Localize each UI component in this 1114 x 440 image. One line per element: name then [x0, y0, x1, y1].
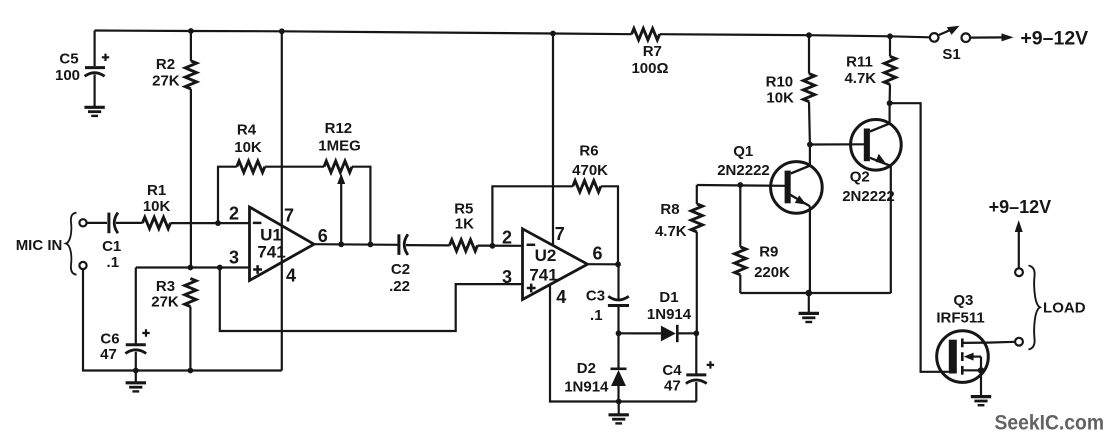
wire U1 supply riser pin7 to pin4 — [281, 31, 283, 370]
diode D2 — [564, 333, 626, 401]
wire Q2 emitter drop — [890, 165, 892, 293]
wire R2 bottom down to pin3 node — [190, 89, 192, 268]
svg-text:6: 6 — [592, 244, 602, 264]
svg-text:7: 7 — [284, 206, 294, 226]
wire C1 to R1 — [116, 222, 143, 224]
svg-text:4: 4 — [286, 266, 296, 286]
svg-text:R8: R8 — [660, 201, 679, 218]
svg-text:4.7K: 4.7K — [844, 70, 876, 87]
svg-text:R4: R4 — [237, 122, 257, 139]
svg-text:D2: D2 — [577, 360, 596, 377]
wire Q2 base feed — [810, 143, 864, 145]
resistor R7 — [631, 29, 668, 78]
node MIC IN — [16, 213, 87, 275]
svg-text:1K: 1K — [455, 216, 474, 233]
svg-text:7: 7 — [555, 224, 565, 244]
svg-text:100Ω: 100Ω — [631, 60, 668, 77]
svg-text:2N2222: 2N2222 — [842, 188, 895, 205]
resistor R6 — [572, 143, 608, 193]
wire U2 pin3 feed — [220, 268, 523, 332]
ground at C6 — [126, 371, 146, 392]
node rail junction R2 — [188, 28, 194, 34]
wire R6 to output — [601, 186, 618, 264]
svg-text:10K: 10K — [143, 198, 171, 215]
wire U1 output — [314, 243, 398, 246]
resistor R1 — [143, 182, 171, 229]
transistor Q1 — [717, 143, 822, 213]
svg-text:R3: R3 — [156, 278, 175, 295]
ground at Q3 — [971, 397, 991, 406]
potentiometer R12 — [318, 120, 361, 244]
svg-text:Q1: Q1 — [733, 143, 753, 160]
svg-text:R7: R7 — [643, 43, 662, 60]
svg-text:C1: C1 — [102, 238, 121, 255]
node R3 bottom junction — [188, 368, 194, 374]
transistor Q3 MOSFET — [936, 292, 988, 396]
svg-text:C6: C6 — [100, 331, 119, 348]
svg-text:3: 3 — [502, 267, 512, 287]
svg-text:1N914: 1N914 — [564, 379, 609, 396]
node wiper junction — [338, 241, 344, 247]
svg-text:R1: R1 — [147, 182, 166, 199]
switch S1 — [930, 26, 970, 63]
svg-text:47: 47 — [664, 377, 681, 394]
capacitor C4 — [662, 333, 714, 401]
node load top terminal — [1015, 268, 1023, 276]
svg-text:220K: 220K — [754, 264, 790, 281]
svg-text:100: 100 — [55, 67, 80, 84]
capacitor C5 — [55, 31, 109, 107]
node Q2 collector junction — [887, 100, 893, 106]
wire U1 pin3 feed — [136, 266, 250, 268]
svg-text:4.7K: 4.7K — [655, 223, 687, 240]
op-amp U2 — [523, 229, 588, 300]
capacitor C6 — [100, 268, 150, 371]
wire C2 to R5 — [406, 244, 450, 246]
svg-text:R12: R12 — [325, 120, 353, 137]
wire Q2 collector riser — [888, 103, 890, 123]
svg-text:4: 4 — [556, 287, 566, 307]
wire U2 pin4 down and bottom — [550, 285, 696, 402]
wire Q1 collector riser — [809, 145, 811, 166]
svg-text:C3: C3 — [586, 287, 605, 304]
node Q1 collector junction — [807, 142, 813, 148]
svg-text:2: 2 — [229, 204, 239, 224]
capacitor C1 — [102, 213, 121, 272]
svg-text:.1: .1 — [590, 307, 603, 324]
svg-text:1N914: 1N914 — [647, 306, 692, 323]
resistor R5 — [450, 201, 478, 252]
svg-text:+9–12V: +9–12V — [989, 197, 1052, 217]
node rail junction U2 supply — [550, 31, 556, 37]
node R9 top junction — [737, 182, 743, 188]
brace LOAD — [1029, 266, 1041, 350]
resistor R3 — [151, 278, 196, 371]
wire D1 to C4 node — [677, 332, 696, 334]
svg-text:C2: C2 — [391, 261, 410, 278]
node load bottom terminal — [1015, 338, 1023, 346]
wire Q1 emitter drop — [809, 206, 811, 293]
wire rail right of R7 — [660, 34, 930, 37]
node U2 output junction — [615, 261, 621, 267]
wire bottom ground bus — [136, 369, 282, 371]
node rail junction R10 — [806, 32, 812, 38]
ground at D2 — [609, 402, 629, 424]
wire top supply rail — [95, 31, 632, 35]
node R3 top junction — [188, 265, 194, 271]
node D1 cathode junction — [693, 330, 699, 336]
wire to D1 — [619, 332, 661, 334]
wire emitter ground bus — [740, 292, 891, 294]
wire Q1 base feed — [697, 184, 785, 187]
svg-text:2N2222: 2N2222 — [717, 162, 770, 179]
node pin3 riser junction — [217, 265, 223, 271]
svg-text:R10: R10 — [766, 73, 794, 90]
svg-text:Q3: Q3 — [953, 292, 973, 309]
ground at Q1 emitter — [799, 293, 819, 322]
node U1 inverting input junction — [215, 220, 221, 226]
svg-text:10K: 10K — [234, 139, 262, 156]
svg-text:27K: 27K — [152, 73, 180, 90]
svg-text:2: 2 — [502, 228, 512, 248]
svg-text:S1: S1 — [942, 46, 960, 63]
resistor R10 — [766, 35, 815, 144]
svg-text:SeekIC.com: SeekIC.com — [995, 410, 1105, 434]
svg-text:U2: U2 — [535, 246, 557, 265]
wire R4 to R12 — [265, 166, 324, 168]
capacitor C2 — [389, 234, 410, 295]
node C3 bottom junction — [616, 330, 622, 336]
svg-text:+9–12V: +9–12V — [1020, 28, 1088, 50]
svg-text:MIC IN: MIC IN — [16, 237, 63, 254]
svg-text:1MEG: 1MEG — [318, 137, 361, 154]
capacitor C3 — [586, 264, 629, 333]
transistor Q2 — [842, 120, 901, 206]
svg-text:741: 741 — [529, 265, 557, 284]
svg-text:D1: D1 — [659, 289, 678, 306]
wire Q3 gate feed — [890, 103, 949, 372]
resistor R2 — [152, 31, 196, 90]
svg-text:R6: R6 — [579, 143, 598, 160]
node C6 bottom junction — [133, 368, 139, 374]
svg-text:10K: 10K — [766, 90, 794, 107]
wire U2 feedback riser — [492, 186, 572, 246]
svg-text:LOAD: LOAD — [1043, 299, 1086, 316]
svg-text:C5: C5 — [59, 51, 78, 68]
svg-text:R11: R11 — [846, 54, 873, 71]
ground at C5 — [84, 107, 104, 116]
svg-text:.22: .22 — [389, 278, 410, 295]
svg-text:U1: U1 — [260, 225, 282, 244]
resistor R8 — [655, 185, 703, 333]
svg-text:6: 6 — [318, 226, 328, 246]
resistor R9 — [735, 185, 790, 293]
wire rail to +V arrow — [970, 36, 1004, 38]
node U2 inverting junction — [490, 243, 496, 249]
wire load supply arrow — [1015, 220, 1023, 268]
wire R5 to U2 pin 2 — [478, 245, 523, 247]
svg-text:R2: R2 — [156, 56, 175, 73]
svg-text:3: 3 — [229, 248, 239, 268]
node rail junction U1 supply — [279, 28, 285, 34]
wire R12 to output riser — [352, 167, 370, 245]
wire Q3 drain to load — [988, 341, 1015, 344]
resistor R4 — [234, 122, 265, 173]
op-amp U1 — [250, 207, 315, 281]
wire MIC top terminal to C1 — [87, 222, 107, 224]
resistor R11 — [844, 36, 895, 103]
node rail junction R11 — [887, 33, 893, 39]
node feedback junction — [368, 242, 374, 248]
wire U2 output — [588, 263, 619, 265]
svg-text:47: 47 — [100, 346, 117, 363]
svg-text:Q2: Q2 — [850, 169, 870, 186]
svg-text:.1: .1 — [107, 254, 120, 271]
svg-text:IRF511: IRF511 — [936, 309, 984, 326]
node D2 ground junction — [616, 399, 622, 405]
svg-text:27K: 27K — [151, 294, 179, 311]
wire U2 supply riser pin7 — [552, 34, 554, 247]
wire R1 to U1 pin 2 — [171, 222, 250, 224]
node ground bus junction — [806, 290, 813, 297]
wire U1 feedback riser — [218, 167, 237, 223]
svg-text:R9: R9 — [759, 244, 778, 261]
svg-text:470K: 470K — [572, 162, 608, 179]
wire MIC bottom terminal down — [83, 269, 136, 370]
diode D1 — [647, 289, 692, 342]
